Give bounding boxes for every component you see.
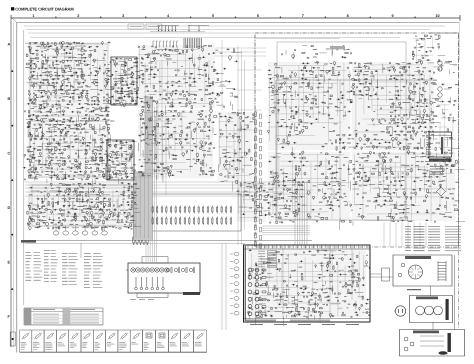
svg-text:7: 7 bbox=[302, 14, 304, 18]
svg-text:B: B bbox=[8, 97, 11, 101]
svg-text:D: D bbox=[8, 206, 11, 210]
svg-text:10: 10 bbox=[435, 14, 439, 18]
svg-text:1: 1 bbox=[32, 14, 34, 18]
svg-text:3: 3 bbox=[122, 14, 124, 18]
svg-text:2: 2 bbox=[77, 14, 79, 18]
svg-text:6: 6 bbox=[257, 14, 259, 18]
svg-text:5: 5 bbox=[212, 14, 214, 18]
svg-text:C: C bbox=[8, 152, 11, 156]
svg-text:A: A bbox=[8, 43, 11, 47]
svg-text:8: 8 bbox=[347, 14, 349, 18]
svg-text:COMPLETE CIRCUIT DIAGRAM: COMPLETE CIRCUIT DIAGRAM bbox=[15, 7, 74, 12]
svg-text:9: 9 bbox=[392, 14, 394, 18]
